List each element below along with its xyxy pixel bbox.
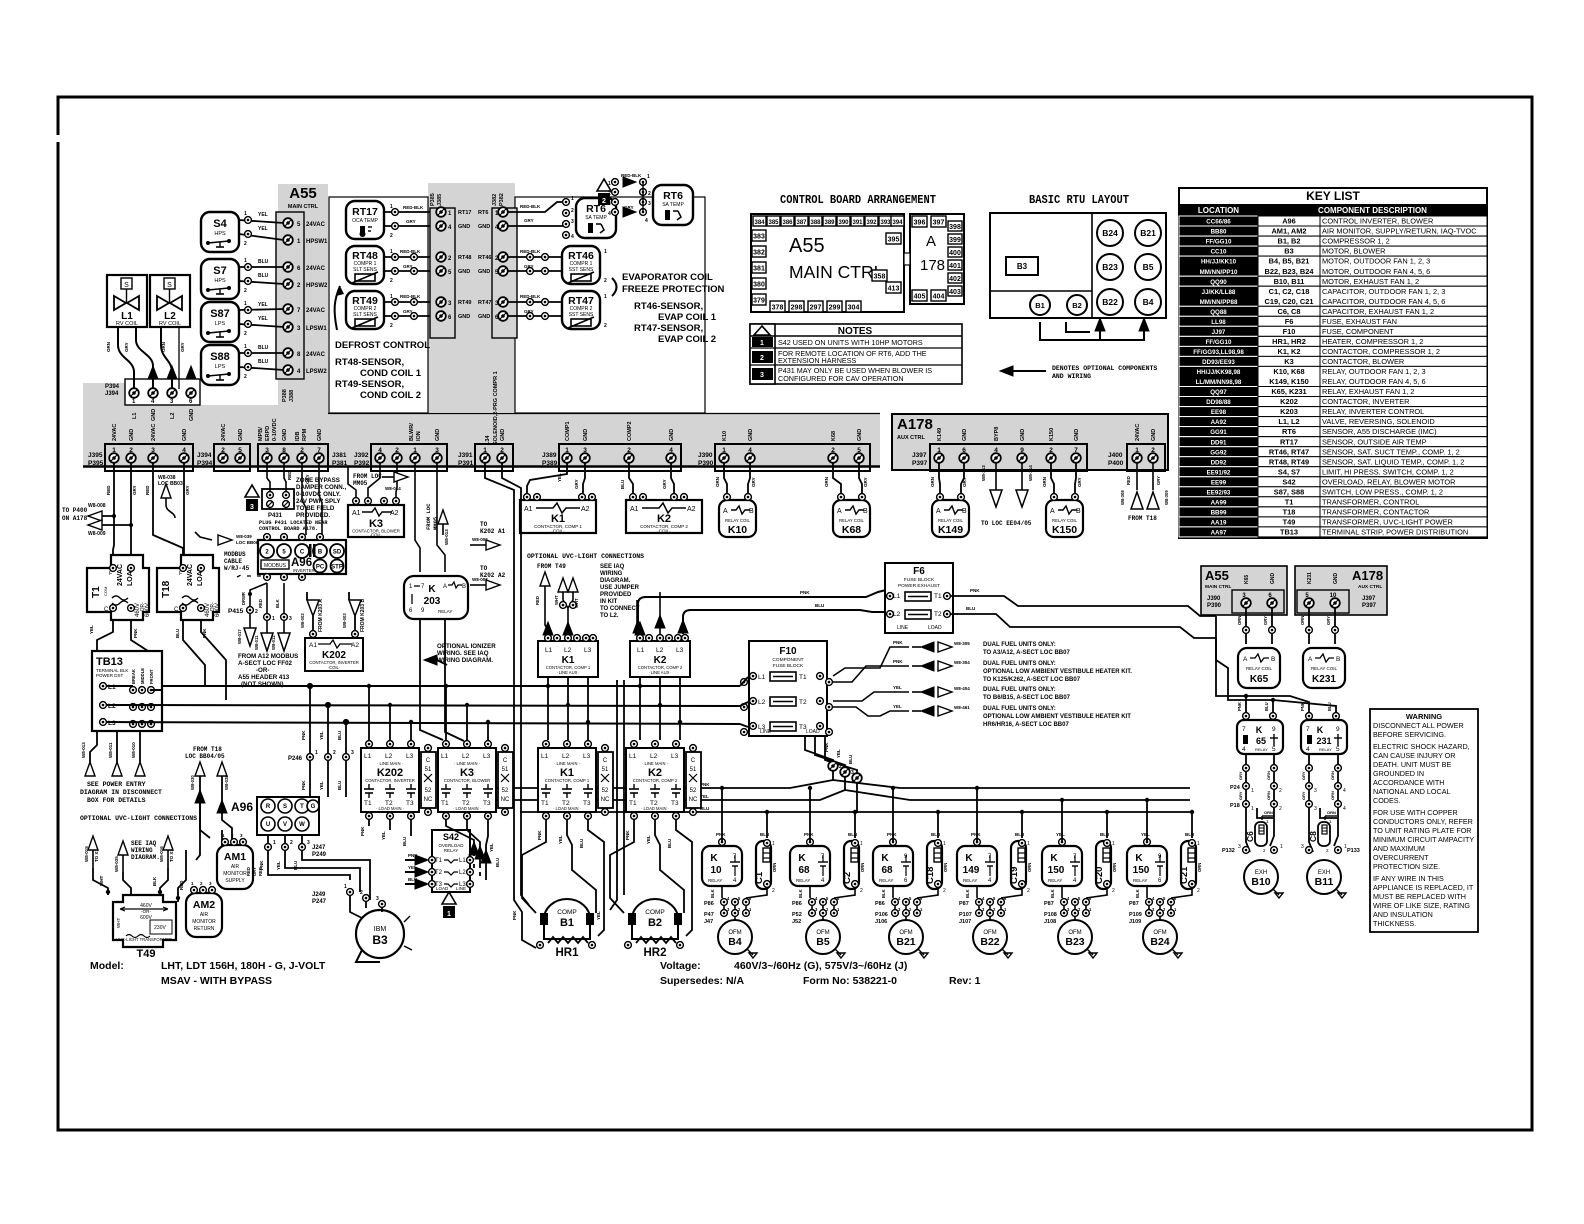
svg-text:B22: B22 [980,936,999,948]
svg-text:24VAC: 24VAC [187,564,194,586]
svg-text:· LINE MAIN ·: · LINE MAIN · [642,761,668,766]
svg-text:S88: S88 [210,351,230,363]
svg-text:RT46, RT47: RT46, RT47 [1269,447,1309,456]
svg-text:·COIL·: ·COIL· [551,529,565,534]
board A178 outline [910,214,964,304]
svg-text:RELAY: RELAY [1048,878,1062,883]
svg-text:K10: K10 [722,431,728,441]
uvc arrows into K2 aux [637,592,660,637]
svg-text:BLK: BLK [881,889,886,898]
svg-text:BLU: BLU [760,832,769,837]
connector J397/P397 [912,427,1087,471]
svg-text:GRY: GRY [1301,791,1306,800]
svg-text:C6, C8: C6, C8 [1277,307,1300,316]
svg-text:KEY LIST: KEY LIST [1306,189,1360,203]
svg-text:WIRING: WIRING [600,571,623,577]
svg-text:A: A [936,508,941,515]
svg-text:RT17: RT17 [458,210,471,216]
svg-text:PNK: PNK [202,628,207,638]
svg-text:S42: S42 [1282,477,1295,486]
svg-text:400: 400 [949,250,961,257]
svg-text:0-10VDC ONLY.: 0-10VDC ONLY. [296,491,341,498]
svg-text:P395: P395 [88,460,104,467]
svg-text:B10, B11: B10, B11 [1274,277,1305,286]
svg-text:OPTIONAL LOW AMBIENT VESTIBULE: OPTIONAL LOW AMBIENT VESTIBULE HEATER KI… [983,669,1132,675]
svg-text:395: 395 [888,237,900,244]
wire YEL into relay K150 [1146,800,1148,842]
svg-text:S: S [167,282,172,289]
svg-text:MM05: MM05 [353,480,368,487]
svg-text:3: 3 [648,201,651,207]
svg-text:ORN: ORN [1264,810,1273,815]
svg-text:TRANSFORMER, CONTROL: TRANSFORMER, CONTROL [1322,497,1419,506]
svg-text:RED: RED [145,485,150,495]
connector J400/P400 [1108,424,1165,471]
svg-text:GND: GND [189,409,195,421]
svg-text:K203: K203 [1280,407,1298,416]
svg-text:BLK: BLK [1135,889,1140,898]
svg-text:T18: T18 [1283,508,1296,517]
relay coil K10 [719,494,756,537]
svg-text:B5: B5 [816,936,830,948]
svg-text:-OR-: -OR- [141,909,151,914]
K231 output chains to B11 [1309,754,1338,852]
svg-text:J400: J400 [1108,452,1123,459]
svg-text:9: 9 [1336,726,1340,733]
svg-text:FUSE, COMPONENT: FUSE, COMPONENT [1322,327,1394,336]
svg-text:TO P400: TO P400 [62,507,88,514]
svg-text:EE91/92: EE91/92 [1207,469,1231,476]
svg-text:AND WIRING: AND WIRING [1052,373,1091,380]
svg-text:B2: B2 [648,917,662,929]
svg-text:ORN: ORN [1300,616,1305,625]
svg-text:RED-BLK: RED-BLK [621,173,642,178]
svg-text:2: 2 [648,191,651,197]
svg-text:1: 1 [827,758,830,764]
svg-text:OVERCURRENT: OVERCURRENT [1373,853,1429,862]
svg-text:51: 51 [502,767,509,773]
svg-text:ORN: ORN [1027,863,1032,872]
svg-text:BLU: BLU [175,629,180,638]
svg-text:K: K [428,584,436,595]
svg-text:GND: GND [238,429,244,441]
svg-text:GRY: GRY [124,342,129,352]
svg-text:RELAY, OUTDOOR FAN 4, 5, 6: RELAY, OUTDOOR FAN 4, 5, 6 [1322,377,1426,386]
svg-text:UVC-LIGHT TRANSFORMER: UVC-LIGHT TRANSFORMER [116,937,172,942]
svg-text:AA99: AA99 [1211,499,1227,506]
svg-text:P87: P87 [959,901,969,907]
svg-text:BB80: BB80 [1211,229,1227,236]
svg-text:W8-010: W8-010 [131,742,136,758]
relay coil K231 [1303,648,1345,688]
svg-text:297: 297 [810,305,822,312]
svg-text:RED-BLK: RED-BLK [400,249,421,254]
contactor K1 aux contact [598,745,613,816]
svg-text:LIMIT, HI PRESS. SWITCH, COMP.: LIMIT, HI PRESS. SWITCH, COMP. 1, 2 [1322,467,1454,476]
svg-text:RED-BLK: RED-BLK [520,294,541,299]
svg-text:· LINE MAIN ·: · LINE MAIN · [554,761,580,766]
svg-text:GND: GND [478,224,490,230]
svg-text:J381: J381 [332,452,347,459]
arrows into S42 [415,855,428,865]
svg-text:1: 1 [244,301,247,307]
svg-text:203: 203 [424,596,441,607]
svg-text:7: 7 [317,447,321,454]
svg-text:EE98: EE98 [1211,409,1227,416]
svg-text:SUPPLY: SUPPLY [225,878,245,884]
connector box P394/J394 top [125,379,200,405]
connector grid P106/J106 [875,896,923,925]
svg-text:SWITCH, LOW PRESS., COMP. 1, 2: SWITCH, LOW PRESS., COMP. 1, 2 [1322,487,1443,496]
svg-text:OCA TEMP: OCA TEMP [352,218,378,224]
svg-text:B4, B5, B21: B4, B5, B21 [1269,257,1310,266]
relay coil K65 [1238,648,1280,688]
svg-text:J385: J385 [437,194,443,206]
svg-text:RELAY: RELAY [708,878,722,883]
svg-text:LPSW1: LPSW1 [306,326,327,332]
svg-text:413: 413 [888,286,900,293]
svg-text:B: B [462,584,466,590]
svg-text:178: 178 [920,257,945,274]
svg-text:6: 6 [962,447,966,454]
svg-text:DEFROST CONTROL: DEFROST CONTROL [335,340,430,351]
svg-text:P415: P415 [228,608,244,615]
svg-text:24VAC: 24VAC [306,266,326,272]
connector panel A178 aux band [892,414,1168,470]
svg-text:P24: P24 [1230,785,1241,791]
svg-text:A: A [837,508,842,515]
svg-text:RT47: RT47 [478,300,491,306]
svg-text:(NOT SHOWN): (NOT SHOWN) [241,681,284,688]
svg-text:1: 1 [571,196,574,202]
svg-text:AND INSULATION: AND INSULATION [1373,910,1433,919]
svg-text:P400: P400 [1108,460,1124,467]
svg-text:A: A [443,584,447,590]
svg-text:380: 380 [753,282,765,289]
svg-text:7: 7 [1306,726,1310,733]
svg-text:GND: GND [478,314,490,320]
wire PNK into relay K68 [809,788,811,842]
svg-text:B24: B24 [1102,228,1118,238]
wires K1 line aux down to K1 line main [548,677,680,740]
svg-text:GRY: GRY [403,264,413,269]
svg-text:YEL: YEL [319,731,324,740]
svg-text:·COIL·: ·COIL· [328,665,341,670]
svg-text:C8: C8 [1308,831,1318,842]
svg-text:3: 3 [760,372,764,379]
svg-text:397: 397 [933,220,945,227]
svg-text:PNK: PNK [301,730,306,740]
svg-text:C: C [691,758,696,764]
svg-text:2: 2 [244,288,247,294]
svg-text:YEL: YEL [558,835,563,844]
svg-text:MIDDLE: MIDDLE [140,668,145,684]
svg-text:358: 358 [874,274,886,281]
svg-text:68: 68 [881,865,893,876]
svg-text:NC: NC [501,797,510,803]
svg-text:MONITOR: MONITOR [223,871,247,877]
wires relay to grid [893,886,938,923]
svg-text:9: 9 [1272,726,1276,733]
svg-text:BLU: BLU [1100,832,1109,837]
svg-text:BLK: BLK [152,876,157,886]
svg-text:J249: J249 [312,892,326,898]
svg-text:W8-304: W8-304 [954,660,970,665]
svg-text:3: 3 [1314,806,1317,812]
svg-text:2: 2 [943,888,946,894]
svg-text:B4: B4 [728,936,742,948]
svg-text:W8-013: W8-013 [81,742,86,758]
svg-text:T1: T1 [541,800,549,807]
svg-text:T1: T1 [435,858,443,864]
svg-text:W8-308: W8-308 [1120,490,1125,505]
svg-text:RPM: RPM [302,428,308,441]
contactor aux K2 line aux [630,635,690,677]
text evaporator coil freeze protection [622,272,725,345]
svg-text:W8-011: W8-011 [108,742,113,758]
svg-text:1: 1 [315,750,318,756]
svg-text:399: 399 [949,237,961,244]
fuse block F6 [885,563,953,633]
svg-text:460V/3~/60Hz (G), 575V/3~/60Hz: 460V/3~/60Hz (G), 575V/3~/60Hz (J) [734,960,907,972]
svg-text:T1: T1 [934,593,942,600]
svg-text:W8-015: W8-015 [84,846,89,862]
svg-text:600V: 600V [145,603,151,617]
svg-text:2: 2 [390,278,393,284]
wires to relay coils [1246,607,1335,644]
svg-text:F: F [109,571,112,577]
svg-text:QQ88: QQ88 [1210,309,1227,316]
svg-text:T2: T2 [799,699,807,706]
svg-text:DUAL FUEL UNITS ONLY:: DUAL FUEL UNITS ONLY: [983,706,1056,712]
svg-text:BLU: BLU [408,877,417,882]
blower motor B3 box [1006,257,1038,275]
svg-text:C21: C21 [1179,866,1190,884]
svg-text:P394: P394 [105,384,120,390]
svg-text:2: 2 [333,750,336,756]
sensor RT46 [562,246,600,284]
svg-text:DUAL FUEL UNITS ONLY:: DUAL FUEL UNITS ONLY: [983,642,1056,648]
svg-text:HPSW1: HPSW1 [306,239,328,245]
svg-text:HR1, HR2: HR1, HR2 [1272,337,1306,346]
svg-text:SLT SENS: SLT SENS [353,267,377,273]
svg-text:C: C [603,758,608,764]
svg-text:CONTACTOR, COMP 1: CONTACTOR, COMP 1 [545,778,590,783]
fan relay K149 [957,839,997,886]
svg-text:YEL: YEL [258,212,268,218]
svg-text:BLU: BLU [966,606,975,611]
wire BLU into cap C20 [1106,812,1108,838]
bottom title texts [90,960,981,987]
svg-text:GG92: GG92 [1210,449,1227,456]
svg-text:BLK: BLK [1050,889,1055,898]
svg-text:RELAY COIL: RELAY COIL [839,518,865,523]
svg-text:W8-461: W8-461 [954,705,970,710]
svg-text:C: C [300,550,305,556]
svg-text:MPB/: MPB/ [258,427,264,441]
svg-text:-OR-: -OR- [256,667,269,674]
svg-text:AIR MONITOR, SUPPLY/RETURN, IA: AIR MONITOR, SUPPLY/RETURN, IAQ-TVOC [1322,227,1477,236]
relay K203 [404,576,468,619]
svg-text:A1: A1 [352,510,361,517]
svg-text:AIR: AIR [200,912,209,918]
svg-text:1: 1 [647,174,650,180]
svg-text:RED: RED [535,596,540,605]
svg-text:J394: J394 [197,452,212,459]
wires J395 terminals down to T1/T18 [88,462,201,605]
svg-text:BLWR/: BLWR/ [409,423,415,441]
svg-text:LOC BB03: LOC BB03 [158,481,183,487]
connector grid P52/J52 [792,896,840,925]
svg-text:52: 52 [602,788,609,794]
svg-text:1: 1 [447,911,451,918]
svg-text:LOAD: LOAD [928,625,942,631]
svg-text:RELAY COIL: RELAY COIL [1311,666,1338,671]
svg-text:W8-314: W8-314 [1028,465,1033,481]
svg-text:HR2: HR2 [643,947,666,959]
svg-text:OPTIONAL UVC-LIGHT CONNECTIONS: OPTIONAL UVC-LIGHT CONNECTIONS [80,815,197,822]
svg-text:PNK: PNK [716,832,726,837]
svg-text:3: 3 [151,447,155,454]
svg-text:150: 150 [1048,865,1065,876]
svg-text:B3: B3 [372,933,388,947]
wires J381 to P431 [267,462,322,535]
warning box [1370,709,1478,932]
svg-text:EVAPORATOR COIL: EVAPORATOR COIL [622,272,713,283]
svg-text:393: 393 [880,220,891,226]
svg-text:600V: 600V [215,603,221,617]
svg-text:BLU: BLU [1015,832,1024,837]
svg-text:LPS: LPS [215,364,226,370]
svg-text:24VAC: 24VAC [1135,424,1141,441]
svg-text:CAPACITOR, OUTDOOR FAN 4, 5, 6: CAPACITOR, OUTDOOR FAN 4, 5, 6 [1322,297,1445,306]
power bus L1 [107,686,740,690]
heater HR1 [537,937,596,959]
svg-text:CONDUCTORS ONLY, REFER: CONDUCTORS ONLY, REFER [1373,817,1473,826]
svg-text:W/RJ-45: W/RJ-45 [224,565,250,572]
J400 wires + from T18 arrows [1137,462,1153,490]
svg-text:5: 5 [238,447,242,454]
svg-text:W8-002: W8-002 [472,537,488,542]
page frame [58,97,1532,1130]
run capacitor C2 [842,840,863,894]
svg-text:1: 1 [483,447,487,454]
svg-text:C18: C18 [925,867,936,884]
svg-text:J394: J394 [105,391,119,397]
svg-text:BREAK: BREAK [131,669,136,684]
svg-text:DAMPER CONN.,: DAMPER CONN., [296,484,346,491]
contactor coil K2 [626,494,702,534]
svg-text:Rev: 1: Rev: 1 [949,975,981,987]
svg-text:3: 3 [583,447,587,454]
svg-text:RT48-SENSOR,: RT48-SENSOR, [335,357,404,368]
sensor RT6 remote [653,185,693,225]
svg-text:W8-012: W8-012 [271,635,276,650]
contactor coil K202 [305,631,363,671]
svg-text:PNK: PNK [512,910,517,920]
wires relay to grid [1062,886,1107,923]
limit switch S7 [201,259,239,299]
svg-text:FUSE BLOCK: FUSE BLOCK [904,577,935,583]
svg-text:FROM A12 MODBUS: FROM A12 MODBUS [238,653,298,660]
svg-text:1: 1 [722,447,726,454]
svg-text:P397: P397 [1362,603,1377,609]
svg-text:WHT: WHT [99,876,104,886]
svg-text:1: 1 [244,344,247,350]
svg-text:2: 2 [221,447,225,454]
svg-text:COMP2: COMP2 [627,421,633,441]
svg-text:A: A [1050,508,1055,515]
reversing valve L1 [107,275,147,327]
svg-text:1: 1 [604,294,607,300]
svg-text:GRY: GRY [574,479,579,489]
svg-text:STP: STP [331,565,343,571]
svg-text:INVERTER: INVERTER [293,568,315,573]
svg-text:P247: P247 [312,899,327,905]
svg-text:HEATER, COMPRESSOR 1, 2: HEATER, COMPRESSOR 1, 2 [1322,337,1423,346]
svg-text:2: 2 [839,764,842,770]
svg-text:24VAC: 24VAC [306,352,326,358]
svg-text:4: 4 [1343,788,1346,794]
svg-text:BLK: BLK [275,599,280,608]
svg-text:ION: ION [416,431,422,441]
dual fuel callout arrows [912,642,952,716]
svg-text:IBM: IBM [374,926,387,933]
svg-text:FROM LOC: FROM LOC [353,473,382,480]
svg-text:ORN: ORN [860,863,865,872]
svg-text:RED: RED [258,599,263,608]
svg-text:391: 391 [852,220,863,226]
svg-text:GRY: GRY [403,309,413,314]
wire PNK into relay K10 [721,788,723,842]
svg-text:JJ/KK/LL88: JJ/KK/LL88 [1202,289,1236,296]
svg-text:S4: S4 [213,218,227,230]
svg-text:CONTACTOR, INVERTER: CONTACTOR, INVERTER [365,778,415,783]
svg-text:4: 4 [182,447,186,454]
svg-text:T3: T3 [483,800,491,807]
svg-text:RELAY: RELAY [444,848,458,853]
svg-text:MODBUS: MODBUS [264,563,287,569]
svg-text:386: 386 [782,220,793,226]
svg-text:RELAY: RELAY [1133,878,1147,883]
svg-text:JJ97: JJ97 [1212,329,1226,336]
svg-text:· LOAD MAIN ·: · LOAD MAIN · [641,806,669,811]
svg-text:DISCONNECT ALL POWER: DISCONNECT ALL POWER [1373,721,1464,730]
svg-text:1: 1 [272,616,275,622]
svg-text:OPTIONAL LOW AMBIENT VESTIBULE: OPTIONAL LOW AMBIENT VESTIBULE HEATER KI… [983,714,1131,720]
connector J389/P389 [542,421,681,471]
svg-text:S: S [124,282,129,289]
heater HR2 [625,937,684,959]
exhaust relay K231 contacts [1301,720,1347,754]
relay coil K150 [1046,494,1083,537]
svg-text:ORN: ORN [1330,791,1335,800]
svg-text:YEL: YEL [319,781,324,790]
svg-text:GRY: GRY [524,218,534,223]
svg-text:RELAY: RELAY [1319,747,1332,752]
svg-text:A: A [723,508,728,515]
svg-text:B5: B5 [1143,262,1154,272]
svg-text:FOR USE WITH COPPER: FOR USE WITH COPPER [1373,808,1458,817]
svg-text:P86: P86 [704,901,714,907]
wires relay to grid [977,886,1022,923]
svg-text:S87: S87 [210,308,230,320]
svg-text:GRY: GRY [1238,791,1243,800]
fuse block F10 [741,641,833,736]
svg-text:ACCORDANCE WITH: ACCORDANCE WITH [1373,778,1444,787]
svg-text:GRY: GRY [406,219,416,224]
svg-text:C1, C2, C18: C1, C2, C18 [1269,287,1310,296]
